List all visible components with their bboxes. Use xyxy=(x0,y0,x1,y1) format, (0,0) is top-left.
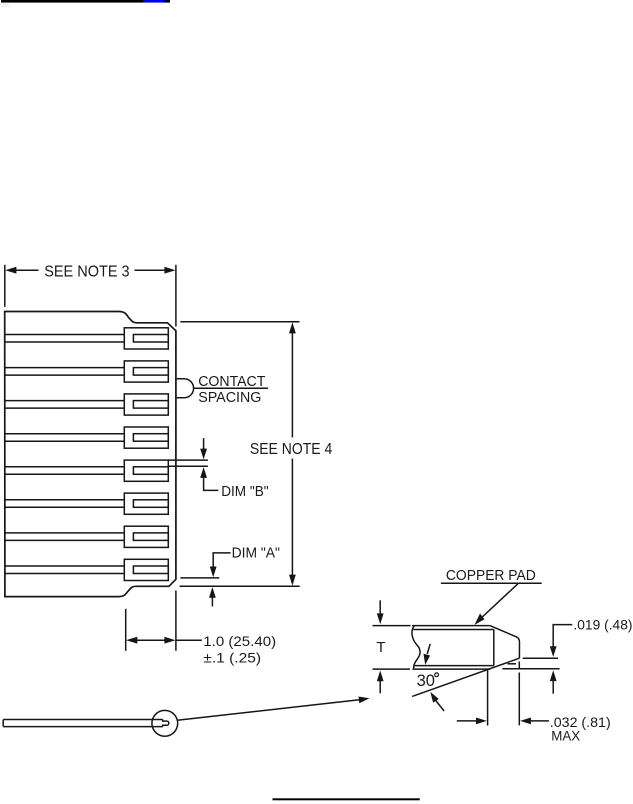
dimension T: arrows xyxy=(377,600,384,693)
dash-dot continuation at tip xyxy=(508,663,517,665)
dimension DIM A: up arrow xyxy=(209,587,216,606)
label .032 (.81) MAX xyxy=(550,714,611,744)
dimension DIM A: short extension line xyxy=(180,577,219,579)
contact pad 1 outline xyxy=(124,328,168,349)
leader arrow from COPPER PAD to pad top xyxy=(475,584,519,625)
svg-text:±.1 (.25): ±.1 (.25) xyxy=(203,649,261,665)
dimension .019: upper short line xyxy=(523,657,558,659)
label COPPER PAD with underline xyxy=(446,567,536,584)
contact finger 2: trace xyxy=(4,368,124,376)
label 1.0 (25.40) ±.1 (.25) xyxy=(203,633,276,665)
svg-text:DIM "A": DIM "A" xyxy=(232,545,280,562)
label .019 (.48) xyxy=(573,617,632,633)
label SEE NOTE 3 xyxy=(44,264,129,281)
copper pad cross-section slab xyxy=(412,626,494,670)
dimension SEE NOTE 4: top extension line xyxy=(180,321,299,323)
pad tip chamfer and nose xyxy=(490,626,520,659)
contact pad 2 outline xyxy=(124,361,168,382)
contact finger 5: trace xyxy=(4,467,124,475)
dimension 1.0 (25.40): dimension line with arrowheads xyxy=(126,637,202,644)
label DIM "A" xyxy=(232,545,280,562)
dimension .019: lower line xyxy=(502,668,559,670)
dimension 1.0 (25.40): extension lines xyxy=(126,591,176,651)
label 30 degrees xyxy=(417,672,435,690)
dimension .032: right vertical extension line (dash-dot) xyxy=(518,662,520,726)
contact pad 4 outline xyxy=(124,427,168,448)
dimension SEE NOTE 4: vertical dimension line with arrowheads xyxy=(289,322,296,586)
dimension .032: left vertical extension line xyxy=(487,669,489,726)
dimension DIM B: arrows xyxy=(200,438,218,490)
dimension SEE NOTE 3: dimension line and arrowheads xyxy=(5,267,175,274)
footer separator line xyxy=(273,798,420,800)
svg-text:.019 (.48): .019 (.48) xyxy=(573,617,632,633)
svg-text:COPPER PAD: COPPER PAD xyxy=(446,567,536,584)
break squiggle at left end of slab xyxy=(412,626,420,670)
svg-text:30: 30 xyxy=(417,672,435,690)
contact pad 6 outline xyxy=(124,493,168,514)
svg-text:1.0 (25.40): 1.0 (25.40) xyxy=(203,633,276,649)
top clipped text bar (black) xyxy=(1,0,143,3)
contact finger 4: trace xyxy=(4,434,124,442)
contact finger 3: trace xyxy=(4,401,124,409)
contact spacing pointer symbol (half stadium on card edge) xyxy=(177,379,194,398)
dimension .019 (.48): leader xyxy=(550,625,573,657)
svg-text:DIM "B": DIM "B" xyxy=(221,483,268,500)
arrow pointing at 30 degree line xyxy=(430,692,444,711)
svg-text:MAX: MAX xyxy=(551,728,581,744)
contact pad 3 outline xyxy=(124,394,168,415)
long leader arrow from circle to detail view xyxy=(177,697,369,721)
contact finger 6: trace xyxy=(4,500,124,508)
dimension DIM B: extension lines xyxy=(168,460,208,466)
contact pin side view bar xyxy=(3,720,169,727)
label DIM "B" xyxy=(221,483,268,500)
svg-text:T: T xyxy=(376,639,385,656)
dimension DIM A: leader and down arrow xyxy=(210,553,231,577)
contact pad 8 outline xyxy=(124,559,168,580)
circle around pin tip xyxy=(152,710,178,736)
svg-text:SEE NOTE 4: SEE NOTE 4 xyxy=(250,441,332,458)
dimension SEE NOTE 4: bottom extension line xyxy=(180,585,300,587)
label SEE NOTE 4 xyxy=(250,441,332,458)
dimension SEE NOTE 3: left extension line xyxy=(4,265,6,307)
contact finger 8: trace xyxy=(4,566,124,574)
small arrow pointing at inner pad line xyxy=(424,644,431,665)
label CONTACT SPACING with divider line xyxy=(194,387,268,389)
contact pad 5 outline xyxy=(124,460,168,481)
dimension .019: up arrow xyxy=(550,670,557,693)
card edge board outline xyxy=(5,312,176,597)
30 degree bevel line xyxy=(412,658,519,696)
svg-text:CONTACT: CONTACT xyxy=(198,373,265,390)
dimension .032: arrows xyxy=(457,718,549,725)
svg-text:SPACING: SPACING xyxy=(198,389,261,406)
svg-text:SEE NOTE 3: SEE NOTE 3 xyxy=(44,264,129,281)
dimension SEE NOTE 3: right extension line xyxy=(175,265,177,327)
dimension T: extension lines xyxy=(373,626,411,670)
top clipped hyperlink bar (blue) xyxy=(0,0,170,7)
contact finger 1: trace xyxy=(4,335,124,343)
contact pad 7 outline xyxy=(124,526,168,547)
label T xyxy=(376,639,385,656)
contact finger 7: trace xyxy=(4,533,124,541)
